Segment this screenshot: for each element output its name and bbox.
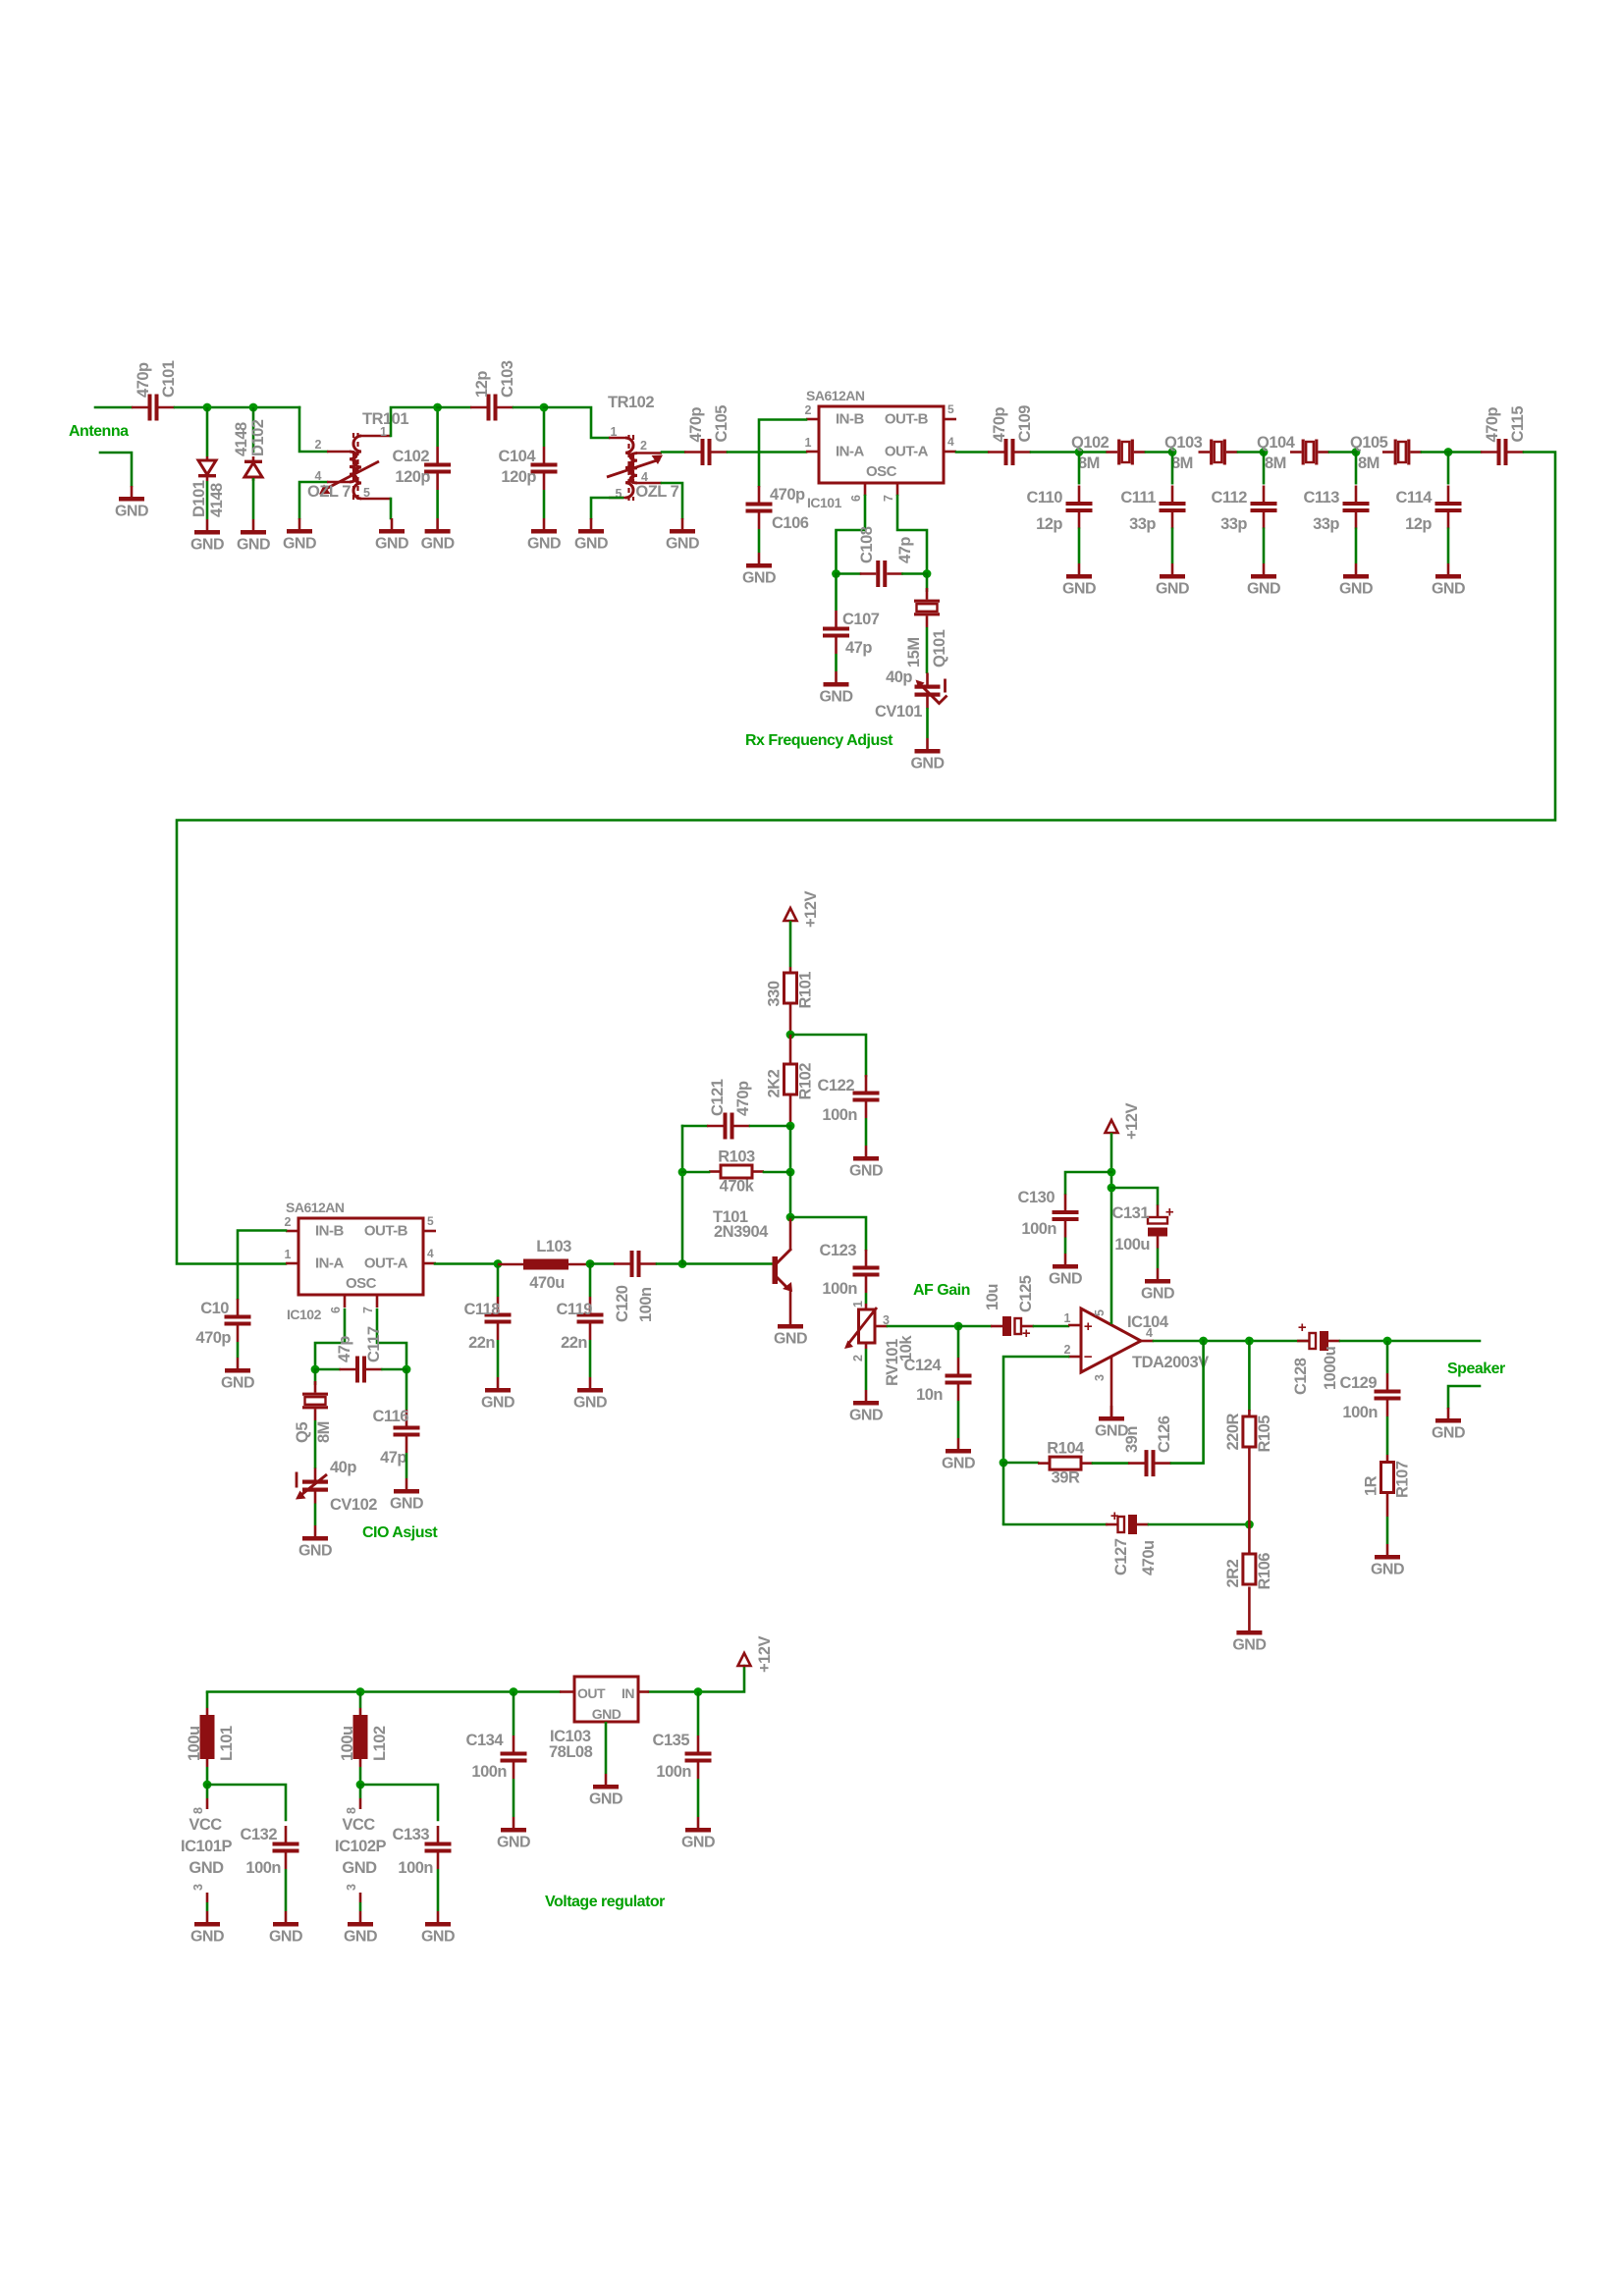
junction [1260, 448, 1269, 456]
wire C129 top [1386, 1341, 1389, 1373]
wire antenna line to TR101 [175, 406, 299, 409]
wire C10 to ground [237, 1342, 240, 1358]
wire C121 to R102 node [750, 1125, 790, 1128]
svg-text:40p: 40p [330, 1459, 356, 1476]
ground TR101 pin4 [283, 518, 316, 553]
capacitor C124 [904, 1357, 972, 1404]
svg-text:GND: GND [481, 1395, 514, 1412]
svg-text:5: 5 [1093, 1309, 1107, 1316]
svg-text:100u: 100u [339, 1726, 356, 1761]
wire C109 to filter [1031, 451, 1079, 454]
svg-text:OUT-B: OUT-B [364, 1223, 408, 1240]
wire IC101 pin7 [897, 496, 927, 574]
svg-text:GND: GND [592, 1706, 622, 1722]
label C117 [336, 1326, 383, 1362]
svg-text:CV101: CV101 [875, 703, 922, 721]
svg-text:47p: 47p [896, 537, 914, 563]
label D101 [190, 480, 226, 517]
wire TR101 pin1 to C102 node [391, 407, 438, 436]
wire C102 to ground [436, 490, 439, 518]
wire TR101 pin5 to ground [390, 499, 393, 518]
svg-text:100n: 100n [1342, 1404, 1378, 1421]
ground C10 [221, 1358, 254, 1392]
capacitor C132 [241, 1826, 299, 1877]
svg-text:330: 330 [766, 981, 784, 1006]
svg-text:33p: 33p [1129, 515, 1156, 533]
capacitor C122 [818, 1075, 880, 1124]
ground IC103 [589, 1774, 622, 1808]
svg-text:12p: 12p [473, 371, 491, 398]
svg-text:−: − [1084, 1349, 1093, 1365]
wire D102 to ground [252, 478, 255, 519]
svg-text:1: 1 [285, 1248, 292, 1261]
svg-text:OUT-A: OUT-A [364, 1255, 408, 1272]
power pins IC101P [181, 1785, 233, 1911]
power +12V T101 [784, 891, 821, 928]
svg-text:C127: C127 [1112, 1538, 1130, 1575]
svg-text:10u: 10u [984, 1284, 1001, 1310]
svg-text:C109: C109 [1016, 405, 1034, 443]
ground C130 [1049, 1254, 1082, 1288]
svg-text:C122: C122 [818, 1077, 855, 1095]
wire C130 to ground [1064, 1238, 1067, 1255]
svg-text:GND: GND [849, 1408, 883, 1424]
svg-text:8M: 8M [315, 1421, 333, 1443]
svg-text:8M: 8M [1171, 454, 1193, 472]
svg-text:GND: GND [573, 1395, 607, 1412]
wire IC103 gnd pin [605, 1722, 608, 1774]
wire to C115 [1448, 451, 1481, 454]
svg-text:470p: 470p [687, 406, 705, 442]
svg-text:8M: 8M [1358, 454, 1380, 472]
crystal Q101 [905, 588, 948, 667]
svg-text:IC104: IC104 [1127, 1313, 1169, 1331]
svg-text:GND: GND [1049, 1271, 1082, 1288]
junction [832, 569, 840, 578]
op-amp IC101 SA612AN [805, 388, 956, 510]
trimmer capacitor CV101 [875, 668, 947, 721]
ground D102 [237, 519, 270, 554]
svg-text:C134: C134 [466, 1732, 505, 1749]
svg-text:100u: 100u [1114, 1236, 1150, 1254]
ground C132 [269, 1911, 302, 1946]
svg-text:GND: GND [1141, 1286, 1174, 1303]
ground R106 [1232, 1620, 1266, 1654]
capacitor C129 [1340, 1373, 1401, 1421]
svg-text:22n: 22n [468, 1334, 495, 1352]
svg-text:R101: R101 [797, 972, 815, 1009]
svg-text:GND: GND [221, 1375, 254, 1392]
wire feedback down [1002, 1463, 1005, 1524]
svg-text:GND: GND [189, 1859, 224, 1877]
svg-text:C107: C107 [842, 611, 880, 628]
wire to TR101 pin2 [299, 407, 327, 452]
transformer TR102 [607, 394, 679, 501]
svg-text:TR102: TR102 [608, 394, 654, 411]
svg-text:GND: GND [375, 536, 408, 553]
svg-text:100n: 100n [471, 1763, 507, 1781]
wire IC102 OUT-A to C118 node [435, 1262, 498, 1265]
wire R107 to ground [1386, 1517, 1389, 1544]
svg-text:GND: GND [1432, 1425, 1465, 1442]
R105 leads [1248, 1410, 1251, 1524]
svg-text:GND: GND [666, 536, 699, 553]
svg-text:3: 3 [345, 1884, 358, 1891]
svg-text:IN: IN [622, 1685, 634, 1701]
wire C128 to speaker [1340, 1340, 1480, 1343]
svg-text:GND: GND [298, 1543, 332, 1560]
svg-text:R102: R102 [797, 1063, 815, 1100]
svg-text:120p: 120p [501, 468, 536, 486]
svg-text:100n: 100n [398, 1859, 433, 1877]
svg-text:5: 5 [427, 1214, 434, 1228]
ground C111 [1156, 563, 1189, 598]
svg-text:3: 3 [191, 1884, 205, 1891]
capacitor C126 [1128, 1450, 1171, 1476]
svg-text:GND: GND [283, 536, 316, 553]
svg-text:GND: GND [421, 1929, 455, 1946]
svg-text:IC101P: IC101P [181, 1838, 233, 1855]
svg-text:IC102: IC102 [287, 1307, 322, 1322]
wire +12V rail left [207, 1690, 560, 1693]
capacitor C116 [372, 1408, 419, 1467]
wire C106 to ground [758, 529, 761, 553]
junction [203, 403, 212, 412]
junction [1444, 448, 1453, 456]
svg-text:2: 2 [315, 438, 322, 452]
label C108 [858, 526, 914, 563]
wire C123 to RV101 [865, 1293, 868, 1304]
wire base chain down [789, 1172, 792, 1217]
wire TR102 pin2 to C105 [662, 451, 684, 454]
svg-text:470u: 470u [529, 1274, 565, 1292]
svg-text:L103: L103 [536, 1238, 571, 1255]
svg-text:C116: C116 [372, 1408, 408, 1425]
svg-text:D101: D101 [190, 480, 208, 517]
capacitor C131 [1112, 1204, 1174, 1255]
wire C110 to ground [1078, 528, 1081, 564]
wire C134 to ground [513, 1779, 515, 1817]
svg-text:OSC: OSC [346, 1275, 377, 1292]
svg-text:Q103: Q103 [1164, 434, 1203, 452]
capacitor C130 [1018, 1189, 1079, 1238]
svg-text:Rx Frequency Adjust: Rx Frequency Adjust [745, 732, 893, 749]
junction [510, 1687, 518, 1696]
wire +12V to R101 [789, 921, 792, 967]
transformer TR101 [307, 410, 408, 502]
ground IC101P [190, 1911, 224, 1946]
junction [586, 1259, 595, 1268]
ground IC102P [344, 1911, 377, 1946]
wire C119 top [589, 1264, 592, 1298]
svg-text:470p: 470p [1484, 406, 1501, 442]
svg-text:1R: 1R [1363, 1475, 1380, 1496]
svg-text:VCC: VCC [189, 1816, 222, 1834]
ground TR101 pin5 [375, 518, 408, 553]
power pins IC102P [335, 1785, 387, 1911]
wire C107 top [835, 574, 838, 612]
svg-text:+: + [1084, 1318, 1093, 1335]
svg-text:IN-A: IN-A [315, 1255, 344, 1272]
capacitor C110 [1026, 486, 1092, 534]
svg-text:C135: C135 [653, 1732, 690, 1749]
wire TR102 pin4 to ground [662, 483, 682, 518]
svg-text:IN-A: IN-A [836, 444, 864, 460]
junction [433, 403, 442, 412]
wire IC104 -input feedback [1003, 1357, 1068, 1463]
svg-text:GND: GND [342, 1859, 377, 1877]
svg-text:+: + [1165, 1204, 1174, 1221]
wire R104 to C126 [1093, 1462, 1128, 1465]
svg-text:GND: GND [1062, 581, 1096, 598]
svg-text:GND: GND [269, 1929, 302, 1946]
svg-text:8M: 8M [1078, 454, 1100, 472]
wire C127 to R105/R106 node [1149, 1523, 1249, 1526]
junction [311, 1365, 320, 1374]
wire C105 to IC101 IN-A [728, 451, 806, 454]
capacitor C134 [466, 1732, 527, 1781]
svg-text:8: 8 [191, 1807, 205, 1814]
svg-text:47p: 47p [380, 1449, 406, 1467]
svg-text:100n: 100n [822, 1280, 857, 1298]
wire filter 1 [1079, 451, 1106, 454]
svg-text:2N3904: 2N3904 [714, 1223, 769, 1241]
svg-text:GND: GND [190, 1929, 224, 1946]
svg-text:47p: 47p [336, 1336, 353, 1362]
svg-text:R106: R106 [1256, 1553, 1273, 1590]
R106 leads [1248, 1524, 1251, 1620]
svg-text:OUT-B: OUT-B [885, 411, 929, 428]
svg-text:C128: C128 [1292, 1358, 1310, 1395]
label C121 [709, 1079, 752, 1116]
svg-text:4: 4 [427, 1247, 434, 1260]
svg-text:47p: 47p [845, 639, 872, 657]
ground C118 [481, 1377, 514, 1412]
svg-text:R103: R103 [718, 1148, 755, 1166]
capacitor C123 [820, 1242, 880, 1298]
svg-text:CIO Asjust: CIO Asjust [362, 1524, 438, 1541]
wire C111 to ground [1171, 528, 1174, 564]
capacitor C115 [1481, 406, 1527, 465]
svg-text:GND: GND [819, 689, 852, 706]
capacitor C102 [393, 447, 452, 490]
svg-text:R105: R105 [1256, 1415, 1273, 1453]
svg-text:+: + [1298, 1319, 1307, 1336]
svg-text:3: 3 [1093, 1374, 1107, 1381]
wire filter 4 [1329, 451, 1356, 454]
svg-text:470p: 470p [770, 486, 805, 504]
capacitor C104 [499, 447, 558, 490]
wire CV102 to ground [314, 1504, 317, 1526]
label C120 [614, 1285, 655, 1322]
wire to C117 [315, 1368, 340, 1371]
capacitor C111 [1120, 486, 1185, 534]
capacitor C128 [1292, 1319, 1340, 1395]
capacitor C119 [556, 1297, 603, 1352]
svg-text:C106: C106 [772, 514, 809, 532]
wire IF output to IC102 IN-A [177, 453, 1555, 1264]
capacitor C114 [1395, 486, 1461, 534]
svg-text:4: 4 [947, 435, 954, 449]
svg-text:C126: C126 [1156, 1415, 1173, 1453]
svg-text:+12V: +12V [1123, 1103, 1141, 1140]
junction [356, 1687, 365, 1696]
wire L101 top [206, 1692, 209, 1709]
svg-text:VCC: VCC [342, 1816, 375, 1834]
svg-text:L101: L101 [218, 1726, 236, 1761]
svg-text:GND: GND [1247, 581, 1280, 598]
svg-text:7: 7 [361, 1307, 375, 1313]
svg-text:OUT-A: OUT-A [885, 444, 929, 460]
svg-text:22n: 22n [561, 1334, 587, 1352]
capacitor C106 [746, 486, 809, 532]
svg-text:CV102: CV102 [330, 1496, 377, 1514]
R107 leads [1386, 1455, 1389, 1517]
junction [1352, 448, 1361, 456]
node AF Gain label [913, 1282, 970, 1299]
op-amp IC104 TDA2003V [1064, 1308, 1210, 1416]
svg-text:C131: C131 [1112, 1204, 1150, 1222]
svg-text:33p: 33p [1313, 515, 1339, 533]
wire C114 top [1447, 453, 1450, 485]
wire antenna ground stub [100, 453, 132, 486]
wire to C108 [837, 572, 861, 575]
junction [540, 403, 549, 412]
wire Q5 to CV102 [314, 1420, 317, 1468]
diode D101 wire [206, 407, 209, 456]
ground C134 [497, 1817, 530, 1851]
ground C133 [421, 1911, 455, 1946]
svg-text:4: 4 [641, 470, 648, 484]
svg-text:GND: GND [1339, 581, 1373, 598]
svg-text:C119: C119 [556, 1301, 592, 1318]
ground C135 [681, 1817, 715, 1851]
ground C112 [1247, 563, 1280, 598]
svg-text:1: 1 [1064, 1311, 1071, 1325]
svg-text:12p: 12p [1405, 515, 1432, 533]
ground C107 [819, 671, 852, 706]
wire TR102 pin5 to ground [591, 498, 622, 518]
wire filter 5 [1422, 451, 1448, 454]
svg-text:TDA2003V: TDA2003V [1132, 1354, 1209, 1371]
svg-text:C10: C10 [200, 1300, 229, 1317]
wire C113 top [1355, 453, 1358, 485]
svg-text:Q5: Q5 [294, 1422, 311, 1443]
svg-text:1: 1 [851, 1301, 865, 1308]
svg-text:C102: C102 [393, 448, 430, 465]
ground C131 [1141, 1268, 1174, 1303]
crystal Q104 [1257, 434, 1329, 472]
capacitor C108 [860, 561, 903, 587]
svg-text:D102: D102 [249, 419, 267, 456]
wire IC101 pin6 [837, 496, 866, 574]
svg-text:100n: 100n [656, 1763, 691, 1781]
svg-text:GND: GND [742, 570, 776, 587]
svg-text:C117: C117 [365, 1326, 383, 1362]
svg-text:C105: C105 [713, 405, 730, 443]
capacitor C117 [340, 1357, 383, 1383]
ground C106 [742, 553, 776, 587]
wire C119 to ground [589, 1340, 592, 1377]
ground C124 [942, 1438, 975, 1472]
svg-text:33p: 33p [1220, 515, 1247, 533]
resistor R105 [1224, 1413, 1273, 1452]
label D102 [233, 419, 267, 456]
ground C114 [1432, 563, 1465, 598]
ground C110 [1062, 563, 1096, 598]
wire C125 to IC104 +input [1034, 1325, 1068, 1328]
svg-text:220R: 220R [1224, 1413, 1242, 1450]
svg-text:470k: 470k [720, 1178, 755, 1196]
svg-text:7: 7 [882, 495, 895, 502]
svg-text:GND: GND [115, 504, 148, 520]
resistor R107 [1363, 1461, 1412, 1498]
svg-text:100u: 100u [186, 1726, 203, 1761]
junction [678, 1259, 687, 1268]
svg-text:4148: 4148 [208, 483, 226, 517]
svg-text:8: 8 [345, 1807, 358, 1814]
ground C116 [390, 1478, 423, 1513]
wire C120 to base node [657, 1262, 682, 1265]
R102 lead [789, 1095, 792, 1126]
wire C103 to C104 node [514, 406, 544, 409]
svg-text:GND: GND [849, 1163, 883, 1180]
svg-text:GND: GND [1371, 1562, 1404, 1578]
wire C117 to pin7 node [383, 1368, 407, 1371]
svg-text:C130: C130 [1018, 1189, 1055, 1206]
svg-text:GND: GND [1232, 1637, 1266, 1654]
svg-text:+12V: +12V [756, 1636, 774, 1673]
junction [786, 1031, 795, 1040]
wire L102 bottom [359, 1767, 362, 1785]
svg-text:OZL 7: OZL 7 [307, 483, 351, 501]
svg-text:120p: 120p [395, 468, 430, 486]
svg-text:GND: GND [190, 537, 224, 554]
svg-text:40p: 40p [886, 668, 912, 686]
wire C114 to ground [1447, 528, 1450, 564]
wire C102 node to C103 [438, 406, 470, 409]
ground C104 [527, 518, 561, 553]
ground C102 [421, 518, 455, 553]
svg-text:2: 2 [640, 439, 647, 453]
junction [923, 569, 932, 578]
svg-text:2: 2 [285, 1215, 292, 1229]
wire C104 to ground [543, 490, 546, 518]
lead R101 node to R102 [789, 1035, 792, 1065]
svg-text:GND: GND [344, 1929, 377, 1946]
svg-text:GND: GND [527, 536, 561, 553]
inductor L103 [498, 1238, 590, 1292]
svg-text:2: 2 [851, 1355, 865, 1362]
wire IC104 output [1154, 1340, 1310, 1343]
node Rx Frequency Adjust label [745, 732, 893, 749]
svg-text:39n: 39n [1123, 1426, 1141, 1453]
svg-text:10n: 10n [916, 1386, 943, 1404]
svg-text:5: 5 [363, 486, 370, 500]
wire RV101 pin2 to ground [865, 1349, 868, 1390]
wire C135 top [697, 1692, 700, 1736]
crystal Q5 [294, 1381, 333, 1443]
ground D101 [190, 519, 224, 554]
capacitor C105 [684, 405, 730, 465]
wire L102 node to C133 [360, 1785, 438, 1820]
ground RV101 [849, 1390, 883, 1424]
ground R107 [1371, 1544, 1404, 1578]
svg-text:2R2: 2R2 [1224, 1559, 1242, 1587]
wire IC102 pin6 [315, 1309, 345, 1369]
wire C132 to ground [285, 1869, 288, 1911]
junction [356, 1781, 365, 1789]
